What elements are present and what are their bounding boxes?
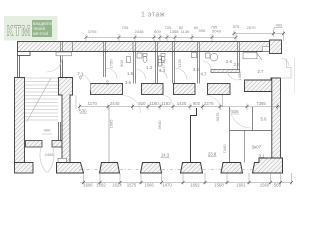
svg-text:3075: 3075 [215, 112, 220, 122]
svg-text:2.6: 2.6 [226, 59, 233, 64]
block2 top notch [58, 158, 67, 162]
svg-text:920: 920 [138, 101, 146, 106]
svg-text:1666: 1666 [144, 183, 154, 188]
middle wall pieces [91, 84, 123, 95]
top wall partition junction lines [61, 41, 240, 52]
stairs [25, 78, 58, 120]
svg-text:1685: 1685 [109, 119, 114, 129]
svg-text:1080: 1080 [237, 71, 242, 81]
svg-text:900: 900 [44, 128, 51, 133]
rotated small dims [106, 58, 243, 153]
svg-text:1575: 1575 [127, 183, 137, 188]
svg-text:1 этаж: 1 этаж [141, 12, 165, 19]
svg-text:600: 600 [154, 29, 161, 34]
svg-text:926: 926 [231, 109, 239, 114]
bottom-left corner block [15, 163, 34, 174]
svg-text:3640: 3640 [157, 120, 162, 130]
svg-text:902: 902 [193, 101, 201, 106]
svg-text:7385: 7385 [256, 101, 266, 106]
top-right corner block [270, 40, 282, 54]
svg-text:МЕЧТОЙ: МЕЧТОЙ [33, 32, 48, 36]
top wall [18, 42, 270, 52]
left wall [15, 78, 25, 163]
middle dimension line [80, 104, 281, 111]
left thin wall upper [17, 56, 19, 78]
svg-text:1624: 1624 [112, 183, 122, 188]
door leaf at gap west [75, 96, 77, 110]
front area door arcs from middle wall gaps [82, 74, 252, 128]
logo [4, 16, 58, 41]
svg-text:23.8: 23.8 [208, 152, 217, 157]
svg-text:7.1: 7.1 [78, 71, 85, 76]
svg-text:3.6: 3.6 [193, 67, 200, 72]
svg-text:1.3: 1.3 [146, 65, 153, 70]
bottom dimension line [80, 173, 292, 185]
svg-text:7.6: 7.6 [106, 80, 110, 85]
big corner block right [245, 78, 281, 92]
room labels [78, 59, 268, 158]
svg-text:2406: 2406 [45, 152, 55, 157]
svg-text:1560: 1560 [260, 183, 270, 188]
svg-text:1568: 1568 [214, 183, 224, 188]
stair right wall [60, 56, 62, 78]
svg-text:5.6: 5.6 [261, 117, 268, 122]
fixtures [127, 52, 263, 66]
svg-text:7440: 7440 [222, 144, 227, 154]
room line 5.6 [252, 107, 254, 131]
svg-text:5к07: 5к07 [252, 145, 262, 150]
svg-text:КТМ: КТМ [7, 22, 32, 39]
svg-text:1180: 1180 [149, 101, 159, 106]
stair diagonal [27, 78, 52, 122]
svg-text:2970: 2970 [247, 25, 257, 30]
front room divider line x=109 [108, 107, 110, 162]
svg-text:490: 490 [276, 23, 283, 28]
svg-text:ТВОЕЙ: ТВОЕЙ [33, 27, 46, 31]
svg-text:2278: 2278 [204, 101, 214, 106]
svg-text:ВЛАДЕЙТЕ: ВЛАДЕЙТЕ [33, 22, 53, 26]
svg-text:1470: 1470 [162, 183, 172, 188]
dashed center line between piers [79, 169, 253, 171]
svg-text:1368: 1368 [170, 29, 180, 34]
svg-text:1170: 1170 [88, 101, 98, 106]
svg-text:1182: 1182 [161, 101, 171, 106]
door lintel over stair hall [56, 52, 72, 56]
top-left wall stub [18, 52, 31, 56]
svg-text:565: 565 [274, 183, 282, 188]
svg-text:1592: 1592 [96, 183, 106, 188]
svg-text:1750: 1750 [109, 59, 114, 69]
svg-text:1.6: 1.6 [127, 71, 134, 76]
svg-text:600: 600 [119, 59, 124, 66]
svg-text:4.7: 4.7 [201, 72, 208, 77]
svg-text:3.1: 3.1 [259, 153, 266, 158]
svg-text:2448: 2448 [135, 29, 145, 34]
svg-text:3.6: 3.6 [125, 80, 132, 85]
vertical hatched wall right of stairs [59, 78, 73, 163]
svg-text:1696: 1696 [83, 183, 93, 188]
svg-text:1136: 1136 [181, 29, 190, 34]
bottom piers [57, 158, 283, 173]
svg-text:1661: 1661 [236, 183, 246, 188]
svg-text:530: 530 [79, 109, 87, 114]
svg-text:5049: 5049 [212, 28, 222, 33]
right wall [272, 78, 281, 173]
svg-text:1714: 1714 [161, 59, 166, 69]
top dimension line [86, 27, 284, 41]
line below P4 [222, 95, 224, 107]
horizontal thin wall of WC corridor [211, 70, 240, 73]
wall x=190 with jog [191, 108, 197, 163]
svg-text:3705: 3705 [88, 29, 98, 34]
door arcs back rooms [106, 61, 238, 80]
svg-text:2440: 2440 [110, 101, 120, 106]
interior thin walls (back rooms) [104, 52, 240, 84]
svg-text:705: 705 [122, 25, 129, 30]
svg-text:1420: 1420 [177, 101, 187, 106]
svg-text:1135: 1135 [177, 58, 182, 67]
stair room bottom wall with door [26, 141, 43, 148]
svg-text:375: 375 [233, 24, 240, 29]
svg-text:14.3: 14.3 [161, 153, 170, 158]
svg-text:906: 906 [199, 28, 206, 33]
svg-text:1692: 1692 [190, 183, 200, 188]
svg-text:3.8: 3.8 [234, 62, 241, 67]
svg-text:2.7: 2.7 [258, 69, 265, 74]
door arc top-left room [47, 56, 63, 72]
right porch outline [281, 58, 295, 93]
